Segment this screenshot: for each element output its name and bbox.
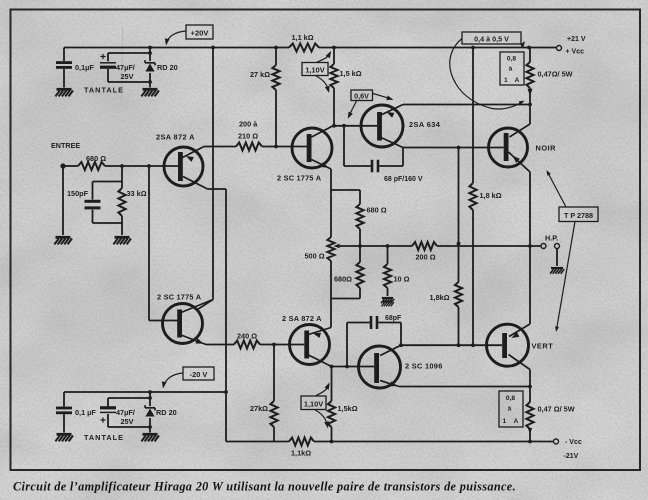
svg-text:68 pF/160 V: 68 pF/160 V	[384, 176, 423, 183]
svg-text:-20 V: -20 V	[190, 370, 208, 379]
svg-text:ENTREE: ENTREE	[51, 141, 80, 150]
svg-text:27kΩ: 27kΩ	[250, 404, 268, 413]
svg-text:2 SA 872 A: 2 SA 872 A	[282, 314, 322, 323]
svg-text:25V: 25V	[121, 417, 134, 426]
svg-text:1,10V: 1,10V	[305, 66, 324, 75]
svg-text:1,5kΩ: 1,5kΩ	[338, 404, 358, 413]
svg-text:0,8: 0,8	[506, 395, 515, 402]
svg-text:+ Vcc: + Vcc	[566, 49, 585, 56]
svg-text:150pF: 150pF	[67, 189, 89, 198]
svg-text:RD 20: RD 20	[156, 408, 177, 417]
svg-text:-21V: -21V	[564, 453, 579, 460]
svg-text:A: A	[514, 418, 519, 425]
svg-text:1,8 kΩ: 1,8 kΩ	[480, 191, 502, 200]
svg-text:0,1µF: 0,1µF	[75, 63, 94, 72]
svg-text:2 SC 1775 A: 2 SC 1775 A	[157, 293, 202, 302]
svg-text:+21 V: +21 V	[567, 36, 586, 43]
svg-text:0,47 Ω/ 5W: 0,47 Ω/ 5W	[538, 405, 575, 414]
svg-text:1,10V: 1,10V	[304, 400, 323, 409]
svg-text:1: 1	[504, 77, 508, 84]
svg-text:0,47Ω/ 5W: 0,47Ω/ 5W	[538, 70, 573, 79]
svg-text:1: 1	[503, 418, 507, 425]
svg-text:1,1 kΩ: 1,1 kΩ	[292, 33, 314, 42]
svg-text:68pF: 68pF	[385, 315, 402, 322]
svg-text:33 kΩ: 33 kΩ	[127, 189, 147, 198]
svg-text:1,1kΩ: 1,1kΩ	[291, 449, 311, 458]
svg-text:Circuit de l’amplificateur Hir: Circuit de l’amplificateur Hiraga 20 W u…	[13, 480, 516, 494]
svg-text:10 Ω: 10 Ω	[394, 275, 410, 284]
svg-text:A: A	[515, 77, 520, 84]
svg-text:47µF/: 47µF/	[116, 408, 135, 417]
svg-text:210 Ω: 210 Ω	[238, 132, 258, 141]
svg-text:1,5 kΩ: 1,5 kΩ	[340, 69, 362, 78]
svg-text:TANTALE: TANTALE	[84, 433, 124, 442]
svg-text:- Vcc: - Vcc	[565, 439, 582, 446]
svg-text:2SA 872 A: 2SA 872 A	[156, 133, 195, 142]
svg-text:0,8: 0,8	[507, 56, 516, 63]
svg-text:RD 20: RD 20	[157, 63, 178, 72]
svg-text:500 Ω: 500 Ω	[305, 252, 325, 261]
svg-text:680Ω: 680Ω	[334, 275, 352, 284]
svg-text:27 kΩ: 27 kΩ	[250, 70, 270, 79]
svg-text:47µF/: 47µF/	[116, 63, 135, 72]
svg-text:0,4 à 0,5 V: 0,4 à 0,5 V	[474, 35, 509, 44]
svg-text:0,1 µF: 0,1 µF	[75, 408, 96, 417]
svg-text:680 Ω: 680 Ω	[86, 154, 106, 163]
svg-text:T P 2788: T P 2788	[564, 211, 593, 220]
svg-text:NOIR: NOIR	[536, 144, 557, 153]
svg-text:0,6V: 0,6V	[354, 92, 369, 101]
svg-text:25V: 25V	[121, 72, 134, 81]
svg-text:200 à: 200 à	[239, 120, 258, 129]
svg-text:VERT: VERT	[532, 342, 554, 351]
svg-text:2 SC 1775 A: 2 SC 1775 A	[277, 174, 322, 183]
svg-text:1,8kΩ: 1,8kΩ	[430, 293, 450, 302]
svg-text:2SA 634: 2SA 634	[409, 120, 441, 129]
svg-text:+20V: +20V	[191, 29, 210, 38]
svg-text:à: à	[509, 66, 513, 73]
svg-text:TANTALE: TANTALE	[84, 86, 124, 95]
svg-text:à: à	[508, 406, 512, 413]
svg-text:H.P.: H.P.	[545, 234, 558, 243]
svg-text:680 Ω: 680 Ω	[367, 206, 387, 215]
svg-text:240 Ω: 240 Ω	[237, 332, 257, 341]
svg-text:2 SC 1096: 2 SC 1096	[405, 362, 443, 371]
svg-text:200 Ω: 200 Ω	[416, 253, 436, 262]
